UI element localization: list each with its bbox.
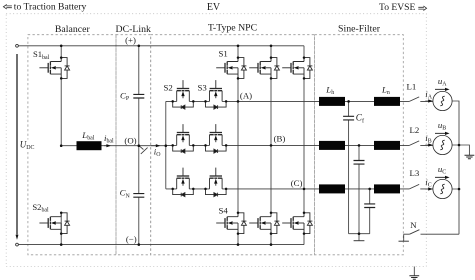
svg-text:(+): (+) bbox=[125, 35, 136, 45]
svg-text:(B): (B) bbox=[274, 134, 286, 144]
svg-text:S3: S3 bbox=[198, 83, 208, 93]
svg-text:L3: L3 bbox=[410, 168, 420, 178]
svg-text:(O): (O) bbox=[124, 135, 136, 145]
svg-text:L2: L2 bbox=[410, 125, 420, 135]
svg-text:EV: EV bbox=[207, 2, 221, 13]
svg-text:To EVSE: To EVSE bbox=[379, 2, 416, 13]
svg-text:T-Type NPC: T-Type NPC bbox=[208, 23, 257, 34]
svg-text:N: N bbox=[410, 220, 417, 230]
svg-text:S4: S4 bbox=[219, 205, 229, 215]
svg-text:(−): (−) bbox=[126, 234, 137, 244]
svg-text:S2: S2 bbox=[164, 83, 173, 93]
svg-text:S1: S1 bbox=[219, 48, 228, 58]
svg-text:(A): (A) bbox=[240, 91, 252, 101]
svg-text:DC-Link: DC-Link bbox=[116, 24, 151, 35]
svg-text:(C): (C) bbox=[291, 178, 303, 188]
svg-text:Sine-Filter: Sine-Filter bbox=[338, 24, 381, 35]
svg-text:L1: L1 bbox=[407, 81, 417, 91]
svg-text:to Traction Battery: to Traction Battery bbox=[14, 1, 87, 12]
svg-text:Balancer: Balancer bbox=[55, 24, 91, 35]
